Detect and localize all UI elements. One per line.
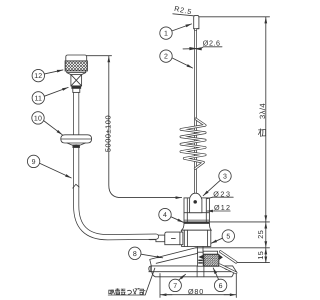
つ	[127, 290, 131, 294]
flange left rounded tip	[149, 266, 152, 272]
bead lower collar	[67, 143, 85, 145]
lower lever arm	[220, 265, 236, 273]
callout 10	[32, 112, 62, 135]
taper to X body	[67, 73, 86, 75]
note text 吸着盤つば部 (pseudo glyphs)	[109, 288, 145, 294]
screw dot on bell	[193, 200, 197, 204]
flange top left segment	[151, 265, 197, 267]
svg-text:5: 5	[226, 234, 230, 241]
svg-text:9: 9	[32, 159, 36, 166]
upper lever arm	[220, 252, 236, 263]
callout 5	[211, 230, 235, 244]
svg-text:5000±100: 5000±100	[103, 115, 112, 152]
bottom plate	[152, 272, 234, 277]
svg-text:Ø2.6: Ø2.6	[203, 39, 221, 48]
svg-text:1: 1	[164, 31, 168, 38]
callout numbers	[32, 31, 231, 290]
吸	[109, 290, 115, 294]
extension line at cup top	[196, 247, 270, 249]
盤	[121, 289, 125, 294]
whip mount bell	[190, 193, 202, 213]
cam top band	[203, 251, 217, 254]
clamp block	[198, 252, 204, 266]
pseudo glyph 約	[258, 129, 265, 137]
cable vertical run and bend to base	[76, 147, 156, 237]
dimension line 3λ/4	[265, 17, 267, 221]
svg-text:Ø80: Ø80	[188, 287, 204, 296]
dimension line with outward arrows	[160, 294, 172, 296]
center mechanism stem	[196, 247, 198, 253]
plug strain relief	[156, 235, 165, 242]
dimension line 25	[265, 222, 267, 247]
dimension line 15	[265, 248, 267, 262]
joint dark band	[184, 222, 209, 224]
callout 11	[32, 87, 68, 104]
cable break mark	[73, 184, 79, 188]
callout 4	[159, 208, 184, 222]
base housing (φ23)	[184, 198, 209, 222]
extension line at cup flange	[236, 262, 270, 264]
svg-text:15: 15	[256, 251, 265, 260]
lower body	[182, 230, 211, 246]
nut lower band	[67, 71, 86, 73]
crosshatched cam block	[204, 254, 219, 266]
着	[115, 289, 120, 295]
X body	[71, 75, 82, 86]
cup surface right of mechanism	[221, 265, 232, 267]
cable from connector down to bead	[73, 92, 79, 136]
svg-text:3: 3	[223, 174, 227, 181]
svg-text:11: 11	[34, 95, 42, 102]
svg-text:25: 25	[256, 230, 265, 239]
extension line top (connector cap level)	[87, 55, 112, 57]
cable into plug	[150, 234, 156, 240]
tip cap	[194, 15, 199, 28]
部	[140, 289, 145, 295]
svg-text:4: 4	[163, 212, 167, 219]
extension line at base top joint	[184, 221, 270, 223]
callout 9	[27, 155, 71, 178]
callout 7	[169, 274, 186, 291]
callout 6	[213, 268, 227, 292]
callout 8	[129, 247, 163, 259]
pivot wedge	[219, 254, 223, 260]
callout 12	[32, 69, 63, 81]
flange right edge slant	[233, 266, 237, 272]
cup top surface lines	[150, 248, 196, 260]
right extension line	[235, 274, 237, 297]
flare cone to lower body	[182, 224, 212, 231]
ば	[133, 288, 139, 294]
callout 3	[203, 170, 231, 196]
ferrite bead	[61, 135, 92, 143]
whip element (double line, continuous behind coil)	[194, 30, 197, 194]
flange bottom	[149, 271, 237, 273]
flange tip hatch ticks	[149, 267, 151, 272]
note underline and leader to flange	[108, 268, 155, 295]
callout 1	[160, 24, 192, 39]
extension line from tip cap	[199, 16, 270, 18]
callout 2	[160, 50, 193, 68]
neck	[73, 88, 80, 92]
svg-text:3λ/4: 3λ/4	[258, 103, 267, 119]
svg-text:7: 7	[173, 283, 177, 290]
svg-text:10: 10	[34, 115, 42, 122]
center post through flange	[196, 266, 198, 277]
dark collar	[72, 86, 81, 89]
plug barrel	[165, 232, 183, 245]
svg-text:6: 6	[219, 283, 223, 290]
svg-text:8: 8	[133, 251, 137, 258]
svg-text:12: 12	[34, 73, 42, 80]
connector cap	[66, 55, 87, 61]
dimension line 5000±100 with bottom curve to antenna base	[109, 56, 182, 197]
clamp wedge (filled)	[198, 255, 203, 259]
knurled nut	[65, 61, 87, 71]
svg-text:2: 2	[164, 54, 168, 61]
loading coil	[181, 119, 205, 169]
left extension line	[159, 274, 161, 298]
